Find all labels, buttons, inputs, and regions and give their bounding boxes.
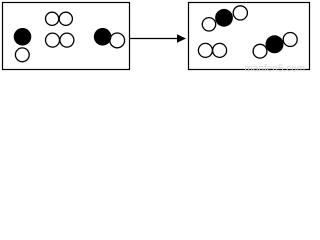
molecule CO2 bottom (right box, white atom upper-right): [283, 33, 297, 47]
molecule CO2 top (right box, white atom upper-right): [233, 6, 247, 20]
molecule CO vertical (left box, white atom bottom): [15, 48, 29, 62]
molecule O2 middle (left box, left atom): [46, 33, 60, 47]
left box: [3, 3, 130, 70]
right box: [189, 3, 310, 70]
molecule O2 middle (left box, right atom): [60, 33, 74, 47]
molecule CO2 top (right box, white atom lower-left): [202, 18, 215, 31]
molecule O2 top (left box, right atom): [59, 12, 72, 25]
molecule O2 leftover (right box, right atom): [213, 43, 227, 57]
molecule CO2 top (right box, black atom center): [215, 9, 233, 27]
molecule CO2 bottom (right box, white atom lower-left): [253, 44, 267, 58]
molecule CO horizontal (left box, black atom left): [94, 28, 112, 46]
molecule CO vertical (left box, black atom top): [14, 28, 32, 46]
molecule CO2 bottom (right box, black atom center): [266, 35, 284, 53]
molecule O2 top (left box, left atom): [46, 12, 59, 25]
arrow: [130, 34, 186, 43]
molecule O2 leftover (right box, left atom): [198, 43, 212, 57]
svg-text:manfen5.com: manfen5.com: [245, 64, 306, 73]
molecule CO horizontal (left box, white atom right): [110, 33, 125, 48]
